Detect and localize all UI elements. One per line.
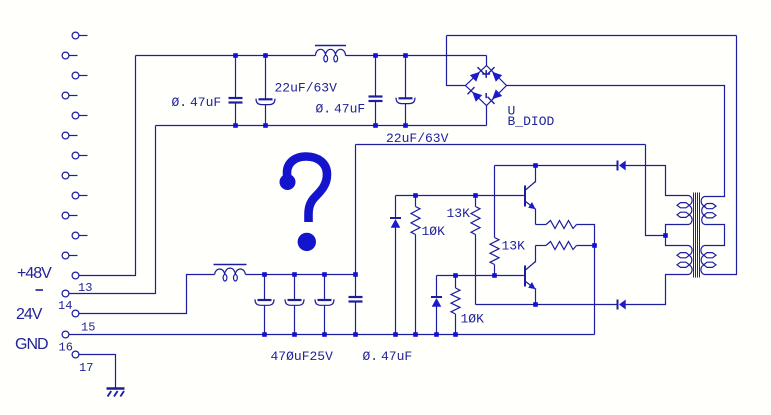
node junction Q2 base rail R2	[453, 273, 458, 278]
pin 5	[72, 112, 87, 119]
wire D2 cathode side to primary top	[626, 166, 689, 196]
pin 6	[62, 132, 77, 139]
inductor L1	[315, 46, 346, 62]
node junction Q2 emitter	[533, 302, 538, 307]
transformer T1 secondary lower loops	[704, 253, 716, 258]
transformer T1 primary winding lower	[689, 246, 693, 275]
node junction top rail C1	[233, 53, 238, 58]
node junction gnd C6	[292, 332, 297, 337]
svg-text:14: 14	[58, 299, 72, 313]
capacitor C4 22uF/63V polarized	[396, 56, 415, 126]
wire pin13 +48V to top rail	[79, 56, 136, 276]
zener diode Z1	[390, 218, 401, 228]
diode D2	[618, 161, 626, 171]
node junction lower rail C2	[263, 123, 268, 128]
wire top rail into bridge top	[486, 56, 488, 66]
svg-text:15: 15	[81, 321, 95, 335]
wire right edge down to secondary bottom	[705, 36, 737, 275]
wire Q2 emitter line to D3	[476, 304, 617, 306]
wire Q2 collector to RH2	[535, 246, 537, 263]
wire Q2 base rail	[437, 275, 524, 277]
pin 9	[72, 192, 87, 199]
svg-text:47uF: 47uF	[334, 102, 365, 117]
wire zener Z1 branch	[395, 196, 397, 219]
wire RH2 right lead	[577, 245, 595, 247]
node junction top rail C4	[403, 53, 408, 58]
wire Q1 emitter to RH1	[535, 209, 537, 225]
diode D3	[618, 300, 626, 310]
wire Q1 collector feed line	[495, 165, 617, 167]
wire bridge AC input from top net	[447, 36, 466, 86]
transformer T1 core	[694, 193, 700, 278]
resistor RH2	[546, 242, 577, 250]
node junction gnd Z2	[434, 332, 439, 337]
svg-text:13K: 13K	[447, 206, 471, 221]
svg-text:1ØK: 1ØK	[422, 224, 446, 239]
capacitor C6 470uF25V polarized	[285, 275, 304, 335]
wire pin15 24V to L2	[79, 275, 215, 314]
node junction base rail R3	[473, 193, 478, 198]
node junction gnd Z1	[393, 332, 398, 337]
node junction gnd C8	[353, 332, 358, 337]
transistor Q1	[525, 182, 536, 210]
svg-text:Ø.: Ø.	[316, 102, 332, 117]
wire Q2 emitter drop	[535, 289, 537, 305]
wire bridge bottom to lower rail	[486, 106, 488, 126]
capacitor C8 0.47uF	[349, 275, 363, 335]
wire 13K R4 top riser	[494, 166, 496, 238]
pin 14	[62, 290, 69, 297]
pin 2	[62, 52, 77, 59]
node junction 24V rail C5	[262, 272, 267, 277]
resistor R1 10K	[411, 207, 420, 235]
svg-text:17: 17	[79, 361, 93, 375]
svg-text:22uF/63V: 22uF/63V	[386, 131, 449, 146]
wire RH2 left lead	[536, 245, 547, 247]
zener diode Z2	[431, 297, 442, 307]
wire 22uF/63V net vertical to 24V rail	[355, 145, 357, 275]
node junction 24V rail C7	[322, 272, 327, 277]
wire zener Z1 to gnd	[395, 228, 397, 335]
node junction top rail C3	[373, 53, 378, 58]
resistor RH1	[546, 221, 577, 229]
wire 10K R1 leads	[415, 196, 417, 335]
node junction 24V rail C8	[353, 272, 358, 277]
pin 15	[72, 310, 79, 317]
node junction center tap	[663, 233, 668, 238]
capacitor C7 470uF25V polarized	[315, 275, 334, 335]
wire 13K R3 bottom long vertical to emitter line	[475, 235, 477, 305]
wire primary w1 bottom to center tap	[666, 225, 689, 246]
wire top +48V rail left of L1	[136, 55, 316, 57]
pin 7	[72, 152, 87, 159]
node junction gnd C7	[322, 332, 327, 337]
svg-text:24V: 24V	[16, 306, 43, 323]
svg-text:+48V: +48V	[17, 265, 52, 282]
wire 13K R4 bottom lead	[494, 265, 496, 276]
wire primary w2 bottom down to D3 line	[626, 275, 689, 305]
node junction 24V rail C6	[292, 272, 297, 277]
wire 13K R3 top lead	[475, 196, 477, 207]
svg-text:GND: GND	[15, 336, 48, 353]
capacitor C2 22uF/63V polarized	[256, 56, 275, 126]
wire bridge AC right to secondary top	[507, 86, 725, 197]
question mark symbol	[280, 157, 328, 252]
node junction gnd R1	[413, 332, 418, 337]
wire feedback resistors right side	[577, 225, 595, 335]
transformer T1 primary winding upper	[689, 196, 693, 225]
wire cap-bank lower rail	[156, 125, 487, 127]
label minus	[36, 289, 44, 291]
wire zener Z2 branch	[436, 276, 438, 298]
pin 10	[62, 212, 77, 219]
resistor R3 13K	[471, 207, 480, 235]
transistor Q2	[525, 262, 536, 290]
wire pin16 GND bottom rail	[69, 334, 595, 336]
transformer T1 primary upper loops	[677, 203, 689, 208]
node junction lower rail C3	[373, 123, 378, 128]
inductor L2	[214, 265, 247, 282]
resistor R4 13K	[490, 238, 499, 265]
pin 1	[72, 32, 87, 39]
wire 22uF/63V net horizontal	[356, 144, 646, 146]
wire top +48V rail right of L1	[346, 55, 487, 57]
node junction RH right	[592, 243, 597, 248]
wire Q1 collector riser	[535, 166, 537, 183]
node junction lower rail C1	[233, 123, 238, 128]
capacitor C3 0.47uF	[369, 56, 383, 126]
svg-text:22uF/63V: 22uF/63V	[275, 81, 338, 96]
svg-text:Ø.: Ø.	[172, 95, 188, 110]
wire 10K R2 leads	[455, 276, 457, 335]
pin 8	[62, 172, 77, 179]
svg-text:16: 16	[59, 341, 73, 355]
pin 12	[62, 252, 77, 259]
pin 16	[62, 331, 69, 338]
transformer T1 secondary winding lower	[701, 246, 705, 275]
wire 24V cap rail right of L2	[246, 274, 356, 276]
wire 22uF/63V net down to center tap	[646, 145, 666, 236]
node junction gnd C5	[262, 332, 267, 337]
wire pin17 to ground symbol	[79, 355, 116, 389]
wire Q1 base rail	[396, 195, 524, 197]
wire top net rail	[447, 35, 737, 37]
pin 13	[72, 272, 79, 279]
pin 17	[72, 351, 79, 358]
node junction top rail C2	[263, 53, 268, 58]
node junction lower rail C4	[403, 123, 408, 128]
svg-text:47uF: 47uF	[190, 95, 221, 110]
wire secondary series link	[705, 225, 725, 246]
wire zener Z2 to gnd	[436, 307, 438, 335]
node junction Q2 base rail R4	[492, 273, 497, 278]
bridge rectifier U B_DIOD	[466, 66, 507, 106]
node junction base rail R1	[413, 193, 418, 198]
wire RH1 left lead	[536, 224, 547, 226]
svg-text:1ØK: 1ØK	[461, 312, 485, 327]
svg-text:13: 13	[78, 281, 92, 295]
node junction gnd R2	[453, 332, 458, 337]
capacitor C5 470uF25V polarized	[255, 275, 274, 335]
wire pin14 minus to cap-bank lower rail	[69, 126, 156, 294]
svg-text:47uF: 47uF	[381, 349, 412, 364]
transformer T1 secondary upper loops	[704, 204, 716, 209]
svg-text:B_DIOD: B_DIOD	[508, 114, 555, 129]
resistor R2 10K	[451, 288, 460, 314]
svg-text:47ØuF25V: 47ØuF25V	[271, 349, 334, 364]
pin 4	[62, 92, 77, 99]
transformer T1 secondary winding upper	[701, 197, 704, 225]
pin 3	[72, 72, 87, 79]
svg-text:Ø.: Ø.	[363, 349, 379, 364]
ground symbol	[107, 389, 125, 397]
node junction Q1 collector	[533, 163, 538, 168]
capacitor C1 0.47uF	[229, 56, 243, 126]
pin 11	[72, 232, 87, 239]
svg-text:13K: 13K	[502, 239, 526, 254]
transformer T1 primary lower loops	[677, 253, 689, 258]
